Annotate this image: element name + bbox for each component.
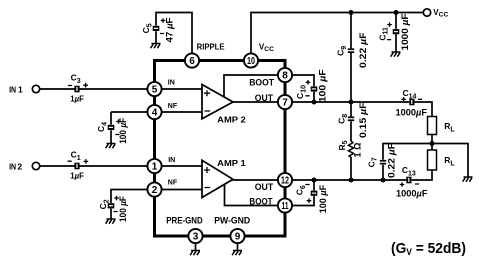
svg-text:1µF: 1µF	[70, 170, 84, 180]
wire C4 vertical branch	[110, 112, 112, 125]
capacitor C9 (0.22uF) symbol	[348, 48, 354, 53]
ground (pin 3)	[190, 251, 200, 256]
wire C11 to ground	[395, 35, 397, 53]
junction node OUT1/C10	[312, 100, 317, 105]
capacitor C14 (1000uF) symbol	[401, 97, 422, 105]
svg-text:2: 2	[152, 185, 158, 196]
svg-text:2: 2	[17, 161, 22, 171]
svg-text:100 µF: 100 µF	[118, 117, 128, 143]
capacitor C1 (1uF) symbol	[68, 159, 89, 169]
wire OUT amp2 to pin 7	[232, 101, 285, 103]
wire OUT1 rail pin 7 to C14	[285, 101, 409, 103]
svg-text:4: 4	[152, 108, 158, 119]
capacitor C5 (47uF) symbol	[153, 18, 166, 33]
terminal IN 1	[32, 85, 39, 92]
wire BOOT pin 8 to C10	[285, 75, 314, 86]
svg-text:1 Ω: 1 Ω	[353, 143, 363, 158]
junction node OUT2/C6	[312, 178, 317, 183]
junction node VCC/C9	[349, 10, 354, 15]
svg-text:8: 8	[282, 71, 288, 82]
pin 6	[185, 53, 199, 67]
svg-text:100 µF: 100 µF	[318, 184, 328, 213]
wire BOOT tap amp2 to pin 8	[224, 75, 285, 97]
wire NF pin 4 to C4 branch	[111, 111, 202, 113]
svg-text:OUT: OUT	[255, 93, 274, 103]
wire C2 to ground	[110, 209, 112, 219]
wire C11 upper	[395, 13, 397, 29]
svg-text:7: 7	[282, 98, 288, 109]
svg-text:0.15 µF: 0.15 µF	[358, 102, 368, 138]
svg-text:1: 1	[152, 162, 158, 173]
svg-text:NF: NF	[168, 101, 178, 110]
ground (RL midpoint)	[463, 177, 473, 182]
pin 10	[244, 53, 258, 67]
pin 5	[147, 82, 161, 96]
wire C9 upper	[350, 13, 352, 49]
pin 7	[278, 95, 292, 109]
IC body U1	[155, 61, 286, 237]
svg-text:IN: IN	[9, 161, 16, 171]
svg-text:(GV = 52dB): (GV = 52dB)	[391, 240, 466, 257]
wire pin 3 ground stem	[195, 236, 197, 251]
wire C5 top to pin 6	[156, 13, 192, 61]
svg-text:1µF: 1µF	[70, 93, 84, 103]
svg-text:1000 µF: 1000 µF	[400, 13, 410, 51]
capacitor C3 (1uF) symbol	[68, 83, 88, 92]
wire C8 to R5	[350, 121, 352, 141]
svg-text:PRE-GND: PRE-GND	[166, 216, 203, 226]
svg-text:0.22 µF: 0.22 µF	[387, 142, 397, 178]
svg-text:PW-GND: PW-GND	[214, 216, 250, 226]
pin 8	[278, 68, 292, 82]
junction node VCC/C11	[394, 10, 399, 15]
junction node OUT2/C7	[381, 178, 386, 183]
wire R5 lower to OUT2 rail	[350, 157, 352, 180]
ground (C11)	[391, 52, 401, 57]
svg-text:12: 12	[281, 176, 289, 187]
ground (C2)	[106, 219, 116, 224]
svg-text:6: 6	[189, 56, 195, 67]
svg-text:NF: NF	[168, 178, 178, 187]
ground (pin 9)	[232, 251, 242, 256]
svg-text:11: 11	[282, 201, 289, 212]
wire C7 lower to OUT2 rail	[382, 165, 384, 180]
svg-text:100 µF: 100 µF	[317, 69, 327, 103]
wire RL1 bottom to RL2 top	[431, 135, 433, 151]
wire IN2 input to pin 1 and amp input	[40, 165, 202, 167]
svg-text:1000µF: 1000µF	[396, 107, 428, 117]
resistor R5 (1 ohm) zigzag	[348, 141, 353, 157]
capacitor C11 (1000uF) symbol	[387, 22, 399, 39]
ground (C5)	[151, 44, 161, 49]
svg-text:AMP 2: AMP 2	[217, 115, 246, 125]
junction node OUT1/C8	[349, 100, 354, 105]
svg-text:0.22 µF: 0.22 µF	[358, 32, 368, 68]
svg-text:AMP 1: AMP 1	[217, 158, 246, 168]
wire NF pin 2 to C2 branch	[111, 190, 202, 204]
terminal IN 2	[32, 162, 39, 169]
pin 1	[147, 159, 161, 173]
wire OUT2 rail pin 12 to C13	[285, 179, 406, 181]
wire C7 top to RL junction	[383, 144, 432, 160]
wire VCC rail pin 10 to VCC terminal	[251, 13, 423, 61]
svg-text:BOOT: BOOT	[249, 197, 273, 207]
svg-text:1000µF: 1000µF	[396, 189, 428, 199]
svg-text:1: 1	[18, 84, 23, 94]
wire IN1 input to pin 5 and amp input	[40, 88, 202, 90]
pin 9	[230, 229, 244, 243]
svg-text:100 µF: 100 µF	[118, 196, 128, 222]
svg-text:IN: IN	[168, 78, 175, 87]
resistor RL load 1 box	[428, 117, 437, 135]
wire C4 to ground	[110, 130, 112, 143]
wire pin 9 ground stem	[237, 236, 239, 251]
resistor RL load 2 box	[428, 150, 437, 170]
op-amp U1A AMP 2	[202, 85, 233, 119]
ground (C4)	[106, 144, 116, 149]
junction node OUT2/R5	[349, 178, 354, 183]
pin 4	[147, 105, 161, 119]
junction node RL midpoint	[430, 141, 435, 146]
terminal VCC	[423, 9, 430, 16]
wire BOOT tap amp1 to pin 11	[225, 184, 286, 206]
capacitor C8 (0.15uF) symbol	[348, 117, 354, 122]
op-amp U1B AMP 1	[202, 160, 233, 197]
wire C14 to RL load 1	[415, 102, 433, 117]
capacitor C4 (100uF) symbol	[108, 119, 121, 134]
wire C10 lower to OUT1 rail	[313, 92, 315, 102]
wire C13 to RL load 2	[412, 170, 432, 180]
capacitor C2 (100uF) symbol	[108, 196, 119, 212]
svg-text:OUT: OUT	[255, 182, 274, 192]
wire RL junction to ground	[432, 144, 468, 178]
svg-text:3: 3	[193, 232, 199, 243]
pin 12	[278, 173, 292, 187]
wire OUT amp1 to pin 12	[232, 179, 285, 181]
wire C5 to ground	[155, 31, 157, 43]
svg-text:9: 9	[235, 232, 241, 243]
svg-text:RIPPLE: RIPPLE	[197, 41, 225, 51]
pin 3	[188, 229, 202, 243]
svg-text:IN: IN	[168, 155, 175, 164]
capacitor C7 (0.22uF) symbol	[380, 160, 386, 165]
capacitor C10 (100uF) symbol	[305, 80, 317, 96]
wire C8 upper	[350, 102, 352, 117]
svg-text:BOOT: BOOT	[249, 78, 274, 88]
capacitor C13 (1000uF) symbol	[400, 177, 420, 187]
wire OUT2 junction to C6	[313, 180, 315, 190]
pin 11	[278, 198, 292, 212]
pin 2	[147, 182, 161, 196]
svg-text:47 µF: 47 µF	[164, 17, 174, 43]
svg-text:5: 5	[152, 85, 158, 96]
svg-text:10: 10	[247, 56, 255, 67]
wire C9 lower to OUT1 rail	[350, 53, 352, 102]
svg-text:IN: IN	[9, 84, 16, 94]
capacitor C6 (100uF) symbol	[305, 185, 317, 204]
wire C6 to BOOT pin 11	[285, 196, 314, 206]
